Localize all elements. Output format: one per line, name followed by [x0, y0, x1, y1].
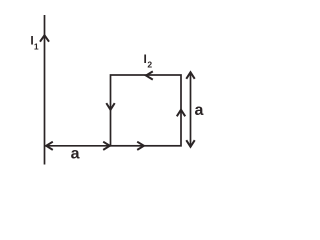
wire: vertical dimension line right of loop [190, 73, 192, 146]
arrow: dimension a left head (points left at wire) [46, 142, 53, 150]
wire: square loop [111, 75, 182, 146]
svg-text:a: a [71, 146, 80, 163]
arrow: dimension a top head (up) [186, 72, 194, 79]
arrow: current I2 on bottom side (right) [137, 142, 144, 150]
wire: long straight vertical conductor [44, 15, 46, 165]
arrow: dimension a bottom head (down) [186, 140, 194, 147]
svg-text:I: I [144, 52, 147, 66]
arrow: dimension a right head (points right at loop) [103, 142, 110, 150]
arrow: current I2 on left side (down) [106, 103, 114, 110]
arrow: current I2 on right side (up) [177, 110, 185, 117]
arrow: current I2 on top side (left) [146, 71, 153, 79]
arrow: current direction I1 (up) on wire [40, 35, 49, 42]
wire: segment from wire to loop along bottom [45, 145, 111, 147]
svg-text:2: 2 [147, 60, 152, 70]
svg-text:a: a [195, 102, 204, 119]
svg-text:1: 1 [34, 41, 39, 51]
